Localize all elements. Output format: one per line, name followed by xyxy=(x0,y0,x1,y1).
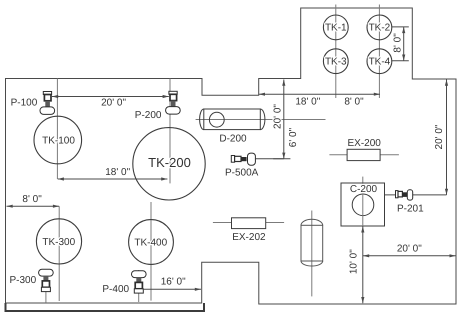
wire: P-300 centerline xyxy=(45,269,47,303)
pump P-100 xyxy=(40,92,55,115)
svg-text:P-200: P-200 xyxy=(135,110,162,121)
svg-text:8' 0": 8' 0" xyxy=(22,194,42,205)
svg-text:EX-200: EX-200 xyxy=(348,138,382,149)
svg-text:8' 0": 8' 0" xyxy=(393,33,404,53)
tank TK-1 xyxy=(323,15,348,40)
wire: EX-200 centerline xyxy=(329,154,399,156)
wire: TK-1/TK-3 column centerline xyxy=(335,5,337,99)
tank TK-200 xyxy=(133,128,205,200)
dimension chain 18'0" / 8'0" top right xyxy=(259,93,380,96)
dimension 8'0" left (boundary to TK-300) xyxy=(7,205,60,208)
wire: TK-200 centerline xyxy=(169,79,171,184)
svg-text:TK-300: TK-300 xyxy=(42,237,75,248)
svg-text:20' 0": 20' 0" xyxy=(397,244,422,255)
wire: TK-300 centerline xyxy=(58,206,60,301)
svg-text:16' 0": 16' 0" xyxy=(161,277,186,288)
pump P-201 xyxy=(396,190,413,200)
svg-text:TK-1: TK-1 xyxy=(325,23,347,34)
svg-text:TK-100: TK-100 xyxy=(42,135,75,146)
wire: P-500A discharge line xyxy=(256,158,284,160)
tank TK-300 xyxy=(36,219,81,264)
svg-text:EX-202: EX-202 xyxy=(232,232,266,243)
pump P-200 xyxy=(166,91,181,114)
svg-text:C-200: C-200 xyxy=(350,184,378,195)
dimension 10'0" vertical bottom right xyxy=(361,226,364,303)
pump P-300 xyxy=(39,269,54,291)
wire: TK-2/TK-4 column centerline xyxy=(378,5,380,99)
compressor C-200 xyxy=(341,183,385,226)
tank TK-4 xyxy=(367,49,392,74)
svg-text:20' 0": 20' 0" xyxy=(101,97,126,108)
dimension 20'0" top (P-100 to P-200) xyxy=(52,95,169,98)
svg-text:P-100: P-100 xyxy=(11,98,38,109)
wire: vertical vessel centerline xyxy=(311,211,313,297)
exchanger EX-202 xyxy=(232,218,266,229)
svg-text:20' 0": 20' 0" xyxy=(273,104,284,129)
dimension 16'0" (P-400 to boundary) xyxy=(143,288,202,291)
svg-text:18' 0": 18' 0" xyxy=(105,167,130,178)
svg-text:TK-4: TK-4 xyxy=(369,56,391,67)
wire: TK-400 centerline xyxy=(150,202,152,301)
svg-text:P-500A: P-500A xyxy=(225,168,259,179)
drum D-200 xyxy=(200,109,265,130)
svg-text:P-201: P-201 xyxy=(397,204,424,215)
svg-text:10' 0": 10' 0" xyxy=(348,249,359,274)
wire: C-200 centerline inside box xyxy=(362,183,364,226)
exchanger EX-200 xyxy=(347,149,380,160)
svg-text:TK-400: TK-400 xyxy=(134,238,167,249)
wire: D-200 centerline xyxy=(196,119,326,121)
svg-text:20' 0": 20' 0" xyxy=(434,124,445,149)
svg-text:P-400: P-400 xyxy=(102,284,129,295)
svg-text:TK-2: TK-2 xyxy=(369,23,391,34)
wire: P-201 suction line xyxy=(385,194,447,196)
dimension 20'0"/6'0" vertical centre xyxy=(273,80,290,159)
wire: EX-202 centerline xyxy=(213,222,284,224)
dimension 8'0" vertical right of TK-2/TK-4 xyxy=(392,27,409,61)
road line bottom (thick) xyxy=(6,303,205,311)
dimension 20'0" right side vertical xyxy=(445,80,448,195)
wire: P-400 centerline xyxy=(138,270,140,302)
dimension 20'0" bottom right horizontal xyxy=(363,254,456,257)
wire: C-200 centerline xyxy=(362,177,364,226)
svg-text:TK-3: TK-3 xyxy=(325,56,347,67)
vertical vessel xyxy=(301,219,323,266)
wire: TK-100 centerline xyxy=(56,79,58,180)
dimension 18'0" (TK-100 to TK-200) xyxy=(58,177,168,180)
svg-text:TK-200: TK-200 xyxy=(148,155,191,170)
svg-text:P-300: P-300 xyxy=(10,275,37,286)
tank TK-400 xyxy=(129,220,174,265)
tank TK-3 xyxy=(323,49,348,74)
svg-text:D-200: D-200 xyxy=(219,133,247,144)
tank TK-2 xyxy=(367,15,392,40)
tank TK-100 xyxy=(34,116,82,164)
svg-text:8' 0": 8' 0" xyxy=(344,97,364,108)
pump P-400 xyxy=(132,271,147,293)
svg-text:18' 0": 18' 0" xyxy=(295,97,320,108)
pump P-500A xyxy=(231,153,255,165)
svg-text:6' 0": 6' 0" xyxy=(288,127,299,147)
